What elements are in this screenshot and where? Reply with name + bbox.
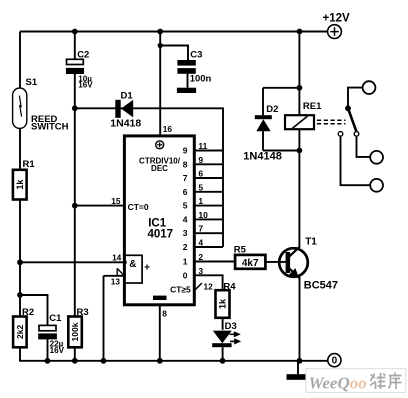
svg-text:&: & [129, 259, 136, 270]
svg-text:2: 2 [198, 252, 203, 262]
svg-text:R5: R5 [234, 245, 247, 256]
svg-text:11: 11 [198, 141, 207, 151]
svg-text:1N418: 1N418 [110, 118, 141, 130]
svg-text:SWITCH: SWITCH [31, 122, 69, 133]
svg-text:C1: C1 [49, 313, 62, 324]
svg-text:9: 9 [183, 146, 188, 156]
svg-text:7: 7 [183, 173, 188, 183]
svg-text:16: 16 [163, 124, 173, 134]
svg-text:8: 8 [183, 159, 188, 169]
svg-text:R3: R3 [77, 307, 89, 318]
svg-text:1N4148: 1N4148 [243, 151, 282, 163]
svg-text:13: 13 [111, 276, 121, 286]
svg-text:5: 5 [183, 201, 188, 211]
svg-text:16V: 16V [50, 346, 65, 355]
svg-text:CT≥5: CT≥5 [170, 285, 191, 295]
svg-text:100n: 100n [190, 74, 212, 85]
svg-text:16V: 16V [78, 81, 93, 90]
svg-text:2: 2 [183, 242, 188, 252]
svg-text:D3: D3 [225, 321, 237, 332]
svg-text:4: 4 [198, 238, 203, 248]
svg-text:1k: 1k [218, 298, 228, 309]
svg-text:9: 9 [198, 155, 203, 165]
svg-text:D1: D1 [121, 90, 134, 101]
svg-text:4k7: 4k7 [242, 258, 259, 269]
svg-text:14: 14 [112, 252, 122, 262]
svg-text:BC547: BC547 [304, 279, 338, 291]
svg-text:6: 6 [198, 169, 203, 179]
svg-text:S1: S1 [26, 77, 38, 88]
svg-text:7: 7 [198, 224, 203, 234]
svg-text:3: 3 [183, 228, 188, 238]
svg-text:CT=0: CT=0 [128, 202, 149, 212]
svg-text:3: 3 [198, 266, 203, 276]
svg-text:15: 15 [111, 196, 121, 206]
svg-text:0: 0 [332, 356, 338, 367]
svg-text:8: 8 [162, 309, 167, 319]
svg-text:4017: 4017 [148, 229, 174, 241]
svg-text:1k: 1k [15, 179, 25, 190]
svg-text:100k: 100k [70, 322, 80, 341]
svg-text:10: 10 [198, 210, 208, 220]
svg-text:4: 4 [183, 214, 188, 224]
svg-text:+: + [144, 263, 150, 274]
svg-text:DEC: DEC [151, 164, 168, 173]
svg-text:R2: R2 [22, 307, 34, 318]
svg-text:5: 5 [198, 182, 203, 192]
svg-text:R4: R4 [223, 281, 236, 292]
svg-text:D2: D2 [266, 104, 278, 115]
svg-text:C3: C3 [190, 50, 202, 61]
svg-text:RE1: RE1 [303, 101, 322, 112]
svg-text:+12V: +12V [323, 13, 351, 25]
svg-text:T1: T1 [305, 237, 317, 248]
svg-text:1: 1 [198, 196, 203, 206]
svg-text:C2: C2 [77, 49, 89, 60]
svg-text:R1: R1 [23, 159, 36, 170]
svg-text:2k2: 2k2 [15, 325, 25, 339]
svg-text:WeeQoo: WeeQoo [309, 373, 367, 392]
svg-text:1: 1 [183, 257, 188, 267]
svg-text:6: 6 [183, 187, 188, 197]
svg-text:12: 12 [204, 282, 214, 292]
svg-text:0: 0 [183, 270, 188, 280]
